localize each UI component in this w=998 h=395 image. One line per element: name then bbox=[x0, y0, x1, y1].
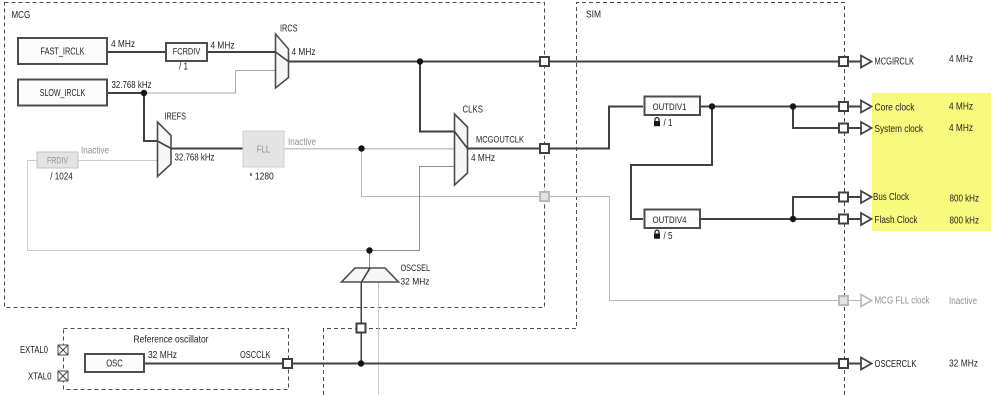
MCG module dashed boundary bbox=[5, 3, 545, 308]
connector: OSCCLK at SIM edge bbox=[357, 324, 366, 333]
lock + divider value of OUTDIV4 bbox=[655, 230, 659, 233]
svg-text:4 MHz: 4 MHz bbox=[292, 47, 316, 58]
connector: System clock at SIM edge bbox=[839, 124, 848, 133]
svg-text:OSC: OSC bbox=[106, 359, 123, 370]
svg-text:800 kHz: 800 kHz bbox=[950, 216, 980, 227]
svg-text:XTAL0: XTAL0 bbox=[28, 372, 52, 383]
svg-text:OSCSEL: OSCSEL bbox=[401, 263, 431, 274]
wire: OUTDIV4 output / Flash clock bbox=[700, 218, 861, 220]
connector: Core clock at SIM edge bbox=[839, 102, 848, 111]
svg-text:Inactive: Inactive bbox=[949, 296, 977, 307]
lock + divider value of OUTDIV1 bbox=[655, 118, 659, 121]
svg-text:MCGOUTCLK: MCGOUTCLK bbox=[476, 135, 525, 146]
block OSC bbox=[85, 354, 144, 372]
block FAST_IRCLK bbox=[18, 38, 107, 64]
mux IREFS bbox=[158, 122, 172, 177]
svg-text:FRDIV: FRDIV bbox=[47, 156, 68, 167]
connector: Bus clock at SIM edge bbox=[839, 193, 848, 202]
svg-text:32 MHz: 32 MHz bbox=[148, 350, 177, 361]
svg-text:MCG FLL clock: MCG FLL clock bbox=[875, 296, 931, 307]
svg-text:Reference oscillator: Reference oscillator bbox=[134, 335, 210, 346]
mux IRCS bbox=[276, 34, 289, 88]
block FRDIV (inactive) bbox=[37, 152, 78, 168]
wire: FRDIV output (inactive) to IREFS input2 bbox=[78, 160, 158, 162]
junction: OUTDIV1 out / OUTDIV4 feed bbox=[709, 103, 715, 109]
svg-text:32.768 kHz: 32.768 kHz bbox=[112, 80, 152, 91]
wire: OSCSEL output to CLKS input3 bbox=[370, 167, 455, 269]
wire: SLOW_IRCLK output bbox=[107, 92, 144, 94]
wire: OSCSEL unselected input (inactive, to bottom edge) bbox=[378, 282, 380, 395]
arrow: Bus clock bbox=[861, 191, 872, 203]
svg-text:CLKS: CLKS bbox=[463, 105, 484, 116]
connector: MCGOUTCLK at MCG edge bbox=[540, 144, 549, 153]
svg-text:FAST_IRCLK: FAST_IRCLK bbox=[41, 47, 85, 58]
svg-text:FLL: FLL bbox=[257, 145, 271, 156]
wire: SLOW_IRCLK to IRCS input2 (unselected) bbox=[144, 71, 276, 94]
wire: System clock branch bbox=[793, 107, 861, 129]
svg-text:Bus Clock: Bus Clock bbox=[873, 192, 910, 203]
wire: FAST_IRCLK to FCRDIV bbox=[107, 51, 166, 53]
svg-text:800 kHz: 800 kHz bbox=[950, 194, 980, 205]
junction: Core/System split bbox=[790, 103, 796, 109]
svg-text:4 MHz: 4 MHz bbox=[471, 153, 495, 164]
svg-text:IRCS: IRCS bbox=[280, 24, 298, 35]
svg-text:/ 1: / 1 bbox=[179, 62, 188, 73]
block FCRDIV bbox=[166, 43, 207, 61]
wire: FLL output (inactive) to CLKS input2 bbox=[284, 148, 455, 150]
block OUTDIV4 bbox=[645, 210, 701, 229]
pad EXTAL0 bbox=[58, 345, 68, 355]
arrow: System clock bbox=[861, 122, 872, 134]
arrow: Flash clock bbox=[861, 213, 872, 225]
svg-text:32 MHz: 32 MHz bbox=[401, 277, 430, 288]
connector: Flash clock at SIM edge bbox=[839, 215, 848, 224]
svg-text:4 MHz: 4 MHz bbox=[949, 123, 973, 134]
block SLOW_IRCLK bbox=[18, 80, 107, 106]
svg-text:Core clock: Core clock bbox=[875, 103, 916, 114]
svg-text:OUTDIV1: OUTDIV1 bbox=[653, 102, 687, 113]
svg-text:EXTAL0: EXTAL0 bbox=[20, 345, 48, 356]
svg-text:MCG: MCG bbox=[12, 10, 31, 21]
svg-text:System clock: System clock bbox=[875, 124, 924, 135]
svg-text:Inactive: Inactive bbox=[81, 146, 109, 157]
connector: OSCCLK at ref-osc edge bbox=[283, 359, 292, 368]
arrow: MCG FLL clock (inactive) bbox=[861, 295, 872, 307]
connector: MCGIRCLK at SIM edge bbox=[839, 57, 848, 66]
wire: OUTDIV1 output / Core clock bbox=[700, 106, 861, 108]
mux OSCSEL bbox=[342, 268, 399, 282]
svg-text:OSCCLK: OSCCLK bbox=[240, 350, 271, 361]
wire: OSCCLK branch up to OSCSEL input bbox=[360, 282, 362, 364]
mux CLKS bbox=[455, 114, 468, 185]
wire: MCGOUTCLK branch down to OUTDIV4 bbox=[631, 107, 712, 220]
wire: IREFS output to FLL bbox=[171, 148, 243, 150]
svg-text:MCGIRCLK: MCGIRCLK bbox=[875, 57, 915, 68]
arrow: Core clock bbox=[861, 101, 872, 113]
wire: IRCS output / MCGIRCLK net bbox=[289, 61, 862, 63]
junction: Flash/Bus split bbox=[790, 216, 796, 222]
junction: MCGIRCLK/CLKS bbox=[417, 58, 423, 64]
svg-text:SIM: SIM bbox=[586, 10, 601, 21]
svg-text:/ 5: / 5 bbox=[664, 231, 673, 242]
pad XTAL0 bbox=[58, 371, 68, 381]
junction: FLL output split bbox=[358, 145, 364, 151]
arrow: MCGIRCLK bbox=[861, 56, 872, 68]
wire: FCRDIV to IRCS input1 bbox=[207, 51, 276, 53]
svg-text:32 MHz: 32 MHz bbox=[949, 359, 978, 370]
junction: SLOW_IRCLK split bbox=[141, 90, 147, 96]
junction: OSCSEL output split bbox=[366, 247, 372, 253]
Reference oscillator dashed boundary bbox=[64, 329, 289, 390]
svg-text:IREFS: IREFS bbox=[165, 112, 187, 123]
svg-text:Inactive: Inactive bbox=[288, 137, 316, 148]
wire: OSCSEL output loop back to FRDIV input (inactive) bbox=[28, 161, 370, 251]
svg-text:OSCERCLK: OSCERCLK bbox=[875, 359, 917, 370]
svg-text:Flash Clock: Flash Clock bbox=[875, 215, 919, 226]
wire: OSC output OSCCLK / OSCERCLK net bbox=[144, 363, 861, 365]
wire: FLL branch to SIM MCG FLL clock (inactive) bbox=[362, 149, 862, 301]
block OUTDIV1 bbox=[645, 97, 701, 116]
svg-text:FCRDIV: FCRDIV bbox=[173, 46, 201, 57]
connector: MCGIRCLK at MCG edge bbox=[540, 57, 549, 66]
wire: CLKS output MCGOUTCLK to OUTDIV1 bbox=[468, 107, 644, 149]
svg-text:32.768 kHz: 32.768 kHz bbox=[175, 153, 215, 164]
svg-text:4 MHz: 4 MHz bbox=[949, 54, 973, 65]
arrow: OSCERCLK bbox=[861, 358, 872, 370]
svg-text:* 1280: * 1280 bbox=[249, 172, 274, 183]
svg-text:4 MHz: 4 MHz bbox=[111, 39, 135, 50]
SIM module dashed boundary bbox=[324, 3, 845, 395]
svg-text:OUTDIV4: OUTDIV4 bbox=[653, 215, 687, 226]
svg-text:SLOW_IRCLK: SLOW_IRCLK bbox=[40, 88, 86, 99]
svg-text:4 MHz: 4 MHz bbox=[949, 102, 973, 113]
highlight: selected clocks (yellow) bbox=[872, 93, 991, 231]
svg-text:4 MHz: 4 MHz bbox=[211, 41, 235, 52]
junction: OSCCLK split bbox=[358, 360, 364, 366]
connector: MCG FLL clock at SIM edge (inactive) bbox=[839, 296, 848, 305]
connector: OSCERCLK at SIM edge bbox=[839, 359, 848, 368]
block FLL (inactive) bbox=[243, 131, 284, 167]
wire: SLOW_IRCLK branch down to IREFS input1 bbox=[144, 93, 158, 141]
connector: FLL clock at MCG edge (inactive) bbox=[540, 192, 549, 201]
svg-text:/ 1024: / 1024 bbox=[50, 172, 73, 183]
wire: MCGIRCLK branch to CLKS input1 bbox=[420, 62, 455, 132]
svg-text:/ 1: / 1 bbox=[664, 118, 673, 129]
wire: Bus clock branch bbox=[793, 197, 861, 219]
